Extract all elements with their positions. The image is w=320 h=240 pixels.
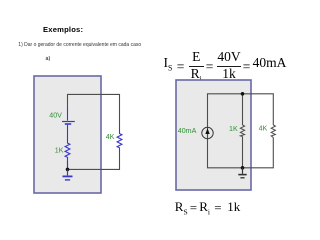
- current source I1 40mA: [202, 127, 213, 138]
- circuit a) thevenin box: [34, 76, 101, 193]
- junction node a: [66, 168, 70, 172]
- wire 1K branch bottom: [242, 137, 244, 168]
- resistor R2 4K (right): [117, 128, 122, 153]
- resistor R4 4K (outside b): [271, 125, 275, 138]
- wire inner loop b: [208, 94, 274, 139]
- svg-text:40V: 40V: [49, 112, 62, 120]
- title "Exemplos:": [43, 25, 83, 34]
- wire bottom a: [68, 153, 120, 170]
- problem statement line: [18, 42, 141, 48]
- svg-text:4K: 4K: [259, 125, 268, 133]
- formula Rs = Ri = 1k: [0, 0, 1, 1]
- item label a): [46, 56, 51, 62]
- svg-text:1K: 1K: [55, 147, 64, 155]
- junction node top b: [241, 92, 245, 96]
- svg-text:1K: 1K: [229, 125, 238, 133]
- junction node bottom b: [241, 166, 245, 170]
- wire loop a: [68, 94, 120, 128]
- svg-text:40mA: 40mA: [178, 127, 197, 135]
- wire 1K branch top: [242, 94, 244, 125]
- wire bottom b: [208, 128, 274, 168]
- battery V1 40V: [62, 108, 75, 129]
- svg-text:4K: 4K: [106, 133, 115, 141]
- ground a: [63, 169, 73, 180]
- circuit b) norton box: [176, 80, 251, 190]
- ground b: [238, 168, 246, 178]
- resistor R1 1K (left): [65, 129, 70, 169]
- formula Is = E/Ri = 40V/1k = 40mA: [0, 0, 1, 1]
- resistor R3 1K (inside b): [240, 125, 244, 137]
